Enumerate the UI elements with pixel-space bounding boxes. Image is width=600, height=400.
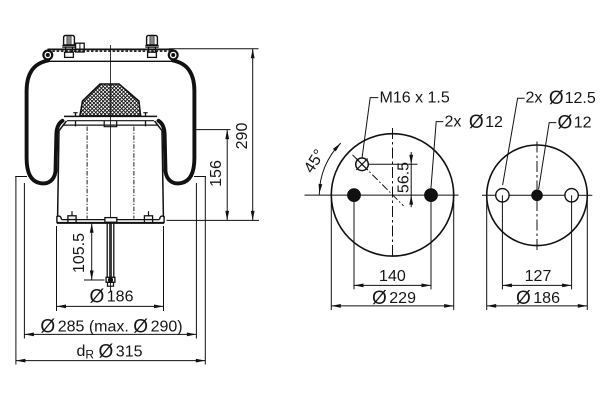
svg-text:140: 140 — [379, 268, 406, 285]
svg-text:Ø12: Ø12 — [558, 112, 592, 133]
svg-text:Ø186: Ø186 — [90, 286, 134, 307]
svg-text:56.5: 56.5 — [396, 162, 413, 193]
svg-text:290: 290 — [234, 123, 251, 150]
svg-text:dR Ø315: dR Ø315 — [76, 341, 142, 362]
svg-text:Ø229: Ø229 — [372, 287, 416, 308]
svg-text:Ø186: Ø186 — [516, 287, 560, 308]
svg-text:M16 x 1.5: M16 x 1.5 — [380, 90, 450, 107]
svg-text:2x Ø12: 2x Ø12 — [445, 111, 504, 132]
svg-text:2x Ø12.5: 2x Ø12.5 — [526, 88, 596, 109]
svg-text:Ø285 (max. Ø290): Ø285 (max. Ø290) — [40, 316, 182, 337]
svg-text:45°: 45° — [301, 147, 328, 177]
svg-text:156: 156 — [208, 160, 225, 187]
svg-text:127: 127 — [525, 268, 552, 285]
svg-text:105.5: 105.5 — [71, 233, 88, 273]
